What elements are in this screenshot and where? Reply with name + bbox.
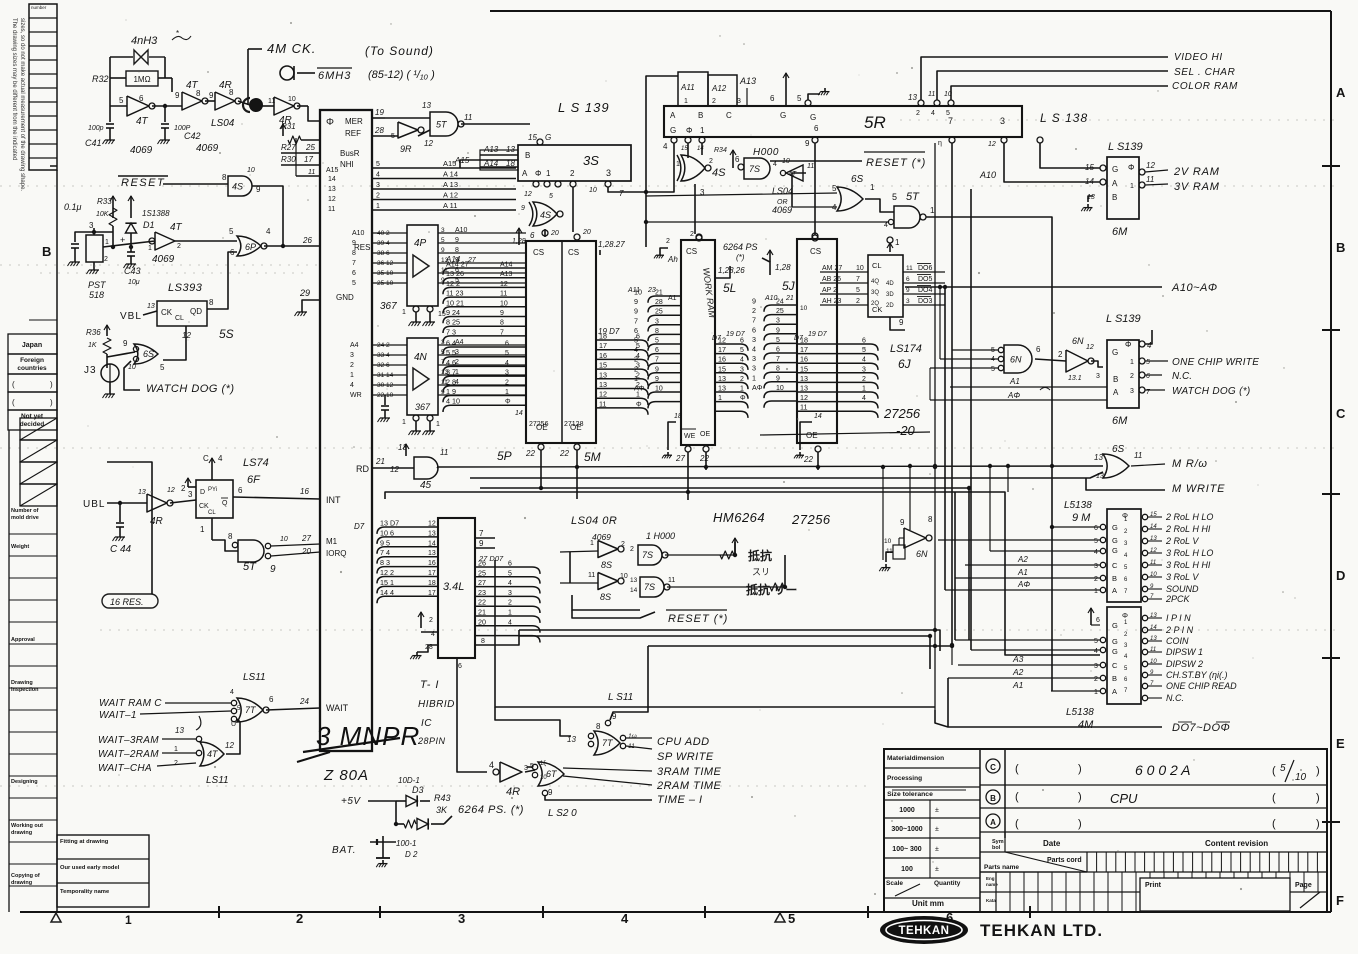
svg-text:38 6: 38 6 (377, 250, 390, 257)
svg-text:9: 9 (634, 307, 638, 316)
svg-text:Content revision: Content revision (1205, 839, 1268, 848)
svg-text:12 2: 12 2 (380, 568, 394, 577)
svg-text:11: 11 (588, 572, 595, 579)
gate 6S OR mid (837, 187, 863, 211)
svg-text:Φ: Φ (686, 126, 692, 135)
svg-text:6264 PS. (*): 6264 PS. (*) (458, 804, 524, 816)
svg-text:OE: OE (700, 431, 710, 438)
svg-text:7: 7 (752, 316, 756, 325)
svg-text:Z 80A: Z 80A (323, 767, 369, 784)
svg-text:ONE CHIP WRITE: ONE CHIP WRITE (1172, 357, 1259, 368)
svg-text:12: 12 (1146, 161, 1155, 170)
bus E horizontal long (495, 560, 935, 707)
svg-text:D: D (200, 489, 205, 496)
svg-text:1: 1 (684, 98, 688, 105)
svg-text:L S 139: L S 139 (558, 100, 610, 115)
wire reset star stub (572, 610, 655, 618)
node 16 RES oval (102, 594, 158, 608)
svg-text:6N: 6N (1010, 355, 1022, 365)
svg-text:8: 8 (196, 89, 201, 98)
svg-text:Date: Date (1043, 839, 1061, 848)
svg-text:18: 18 (599, 332, 607, 341)
wire LS393 out to 6P (207, 252, 237, 309)
svg-text:11: 11 (1146, 175, 1154, 184)
svg-text:6: 6 (508, 561, 512, 568)
svg-text:DO6: DO6 (918, 265, 933, 272)
svg-text:15: 15 (599, 361, 607, 370)
svg-text:9: 9 (441, 247, 445, 254)
svg-text:300~1000: 300~1000 (891, 826, 922, 833)
svg-text:3: 3 (776, 318, 780, 325)
svg-text:26: 26 (478, 559, 486, 568)
svg-text:11: 11 (807, 163, 814, 170)
svg-text:8: 8 (596, 722, 601, 731)
svg-text:1K: 1K (88, 342, 97, 349)
svg-text:G: G (780, 111, 786, 120)
svg-text:17: 17 (599, 341, 607, 350)
svg-text:1: 1 (870, 183, 875, 192)
svg-text:Not yet: Not yet (21, 413, 44, 420)
svg-text:LS74: LS74 (243, 457, 269, 469)
svg-text:G: G (1112, 621, 1118, 630)
svg-text:1,28: 1,28 (775, 263, 791, 272)
svg-text:AΦ: AΦ (752, 383, 763, 392)
svg-text:6: 6 (862, 338, 866, 345)
wire A10-A0 bus label (905, 286, 1162, 288)
wire M RW out (1131, 464, 1165, 466)
svg-text:TEHKAN: TEHKAN (899, 925, 950, 937)
svg-text:decided: decided (20, 421, 45, 428)
svg-text:C: C (1336, 406, 1346, 421)
svg-text:Parts name: Parts name (984, 864, 1019, 871)
vertical bus 945 (944, 287, 946, 590)
svg-text:22: 22 (478, 598, 486, 607)
svg-text:30 12: 30 12 (377, 382, 394, 389)
svg-text:B: B (990, 794, 996, 803)
svg-text:3: 3 (906, 298, 910, 305)
svg-text:13: 13 (800, 384, 808, 393)
gate 6T OR (538, 762, 564, 786)
svg-text:D1: D1 (143, 220, 155, 230)
svg-text:7: 7 (856, 276, 860, 283)
svg-text:4: 4 (634, 345, 638, 354)
svg-text:AB 26: AB 26 (822, 276, 841, 283)
svg-text:4: 4 (773, 161, 777, 168)
svg-text:1: 1 (895, 238, 900, 247)
svg-text:RES: RES (354, 243, 370, 252)
6T outputs to labels (563, 768, 652, 771)
svg-text:+: + (120, 235, 125, 245)
svg-text:1ξ: 1ξ (540, 761, 546, 767)
IC 5L body WORK RAM (681, 240, 715, 445)
svg-text:3: 3 (188, 490, 193, 499)
svg-text:3: 3 (376, 182, 380, 189)
svg-text:5: 5 (508, 570, 512, 577)
svg-text:Copying of: Copying of (11, 873, 40, 879)
margin bracket box 1 (8, 374, 57, 392)
svg-text:2: 2 (1130, 373, 1134, 380)
svg-text:CPU: CPU (1110, 791, 1138, 806)
svg-text:A: A (1112, 687, 1117, 696)
svg-text:2: 2 (429, 617, 433, 624)
svg-text:9 5: 9 5 (380, 538, 390, 547)
svg-text:2: 2 (621, 541, 625, 548)
wire sel char (937, 71, 1168, 100)
svg-text:2Q: 2Q (871, 301, 879, 307)
svg-text:4: 4 (350, 382, 354, 389)
wire UBL to 4R (107, 502, 147, 504)
svg-text:A13: A13 (500, 271, 513, 278)
svg-text:2: 2 (752, 306, 756, 315)
wire A10 from pin3 (1004, 143, 1100, 182)
svg-text:E: E (1336, 736, 1345, 751)
svg-text:11: 11 (1134, 451, 1142, 460)
svg-text:3.4L: 3.4L (443, 581, 464, 593)
gate 7S NAND b (640, 577, 664, 597)
svg-text:5: 5 (549, 193, 553, 200)
svg-text:L S2 0: L S2 0 (548, 808, 577, 819)
IC 3S body (518, 145, 631, 181)
svg-text:33 4: 33 4 (377, 352, 390, 359)
svg-text:2RAM TIME: 2RAM TIME (656, 780, 722, 792)
svg-text:6J: 6J (898, 357, 912, 371)
svg-text:100~ 300: 100~ 300 (892, 846, 921, 853)
svg-text:1,28: 1,28 (512, 238, 526, 245)
svg-text:8: 8 (229, 88, 234, 97)
svg-text:14: 14 (697, 146, 704, 152)
svg-text:10: 10 (288, 96, 296, 103)
svg-text:A2: A2 (1012, 667, 1024, 677)
svg-text:9: 9 (634, 297, 638, 306)
svg-text:AH 23: AH 23 (822, 298, 842, 305)
svg-text:8: 8 (655, 328, 659, 335)
wire ls11 in13 (495, 707, 571, 736)
svg-text:A: A (1112, 179, 1118, 188)
svg-text:6S: 6S (1112, 444, 1125, 455)
wire left of A11 (646, 76, 678, 192)
svg-text:8S: 8S (601, 560, 612, 570)
svg-text:C 44: C 44 (110, 544, 132, 555)
svg-text:Kata: Kata (986, 898, 996, 903)
svg-text:20: 20 (582, 229, 591, 236)
svg-text:8: 8 (352, 250, 356, 257)
svg-text:sizes, so do not make actual m: sizes, so do not make actual measurement… (19, 18, 25, 191)
IC 5R body (664, 106, 1022, 137)
svg-text:WATCH DOG (*): WATCH DOG (*) (146, 383, 235, 395)
svg-text:6F: 6F (247, 474, 261, 486)
svg-text:CS: CS (686, 247, 697, 256)
svg-text:36 12: 36 12 (377, 260, 394, 267)
svg-text:3: 3 (1094, 663, 1098, 670)
svg-text:28: 28 (374, 126, 384, 135)
wire node to inverter (103, 241, 155, 247)
svg-text:6 0 0 2 A: 6 0 0 2 A (1135, 762, 1191, 778)
svg-text:12: 12 (500, 281, 508, 288)
svg-text:±: ± (935, 807, 939, 814)
svg-text:DIPSW 1: DIPSW 1 (1166, 647, 1203, 657)
svg-text:1: 1 (105, 239, 109, 246)
svg-text:H000: H000 (753, 147, 779, 158)
svg-text:GND: GND (336, 293, 354, 302)
svg-text:Scale: Scale (886, 880, 903, 887)
svg-text:L S139: L S139 (1106, 313, 1141, 325)
svg-text:11: 11 (328, 206, 335, 213)
svg-text:18: 18 (428, 580, 436, 587)
svg-text:4: 4 (740, 357, 744, 364)
svg-text:3: 3 (1000, 116, 1005, 126)
svg-text:5: 5 (352, 280, 356, 287)
6J output rows (903, 271, 945, 273)
IC A11 box (678, 72, 708, 106)
svg-text:7: 7 (619, 189, 624, 198)
svg-text:2: 2 (1094, 576, 1098, 583)
svg-text:G: G (545, 133, 551, 142)
svg-text:): ) (1078, 791, 1082, 803)
svg-text:25: 25 (478, 568, 486, 577)
title revision grid upper (1086, 852, 1088, 872)
svg-text:(: ( (1272, 792, 1276, 804)
margin left border line (56, 170, 58, 912)
svg-text:1: 1 (200, 525, 205, 534)
wire 6P out to RES (264, 245, 320, 247)
junction dots buses (881, 465, 885, 469)
svg-text:2: 2 (508, 600, 512, 607)
svg-text:G: G (1112, 536, 1118, 545)
margin lower column rows (9, 533, 57, 535)
5L CS pin (696, 234, 702, 240)
svg-text:12: 12 (718, 336, 726, 345)
component PST518 (86, 235, 103, 262)
svg-text:(*): (*) (736, 253, 745, 262)
svg-text:A: A (1112, 586, 1117, 595)
6F top pin C4 (211, 458, 213, 480)
svg-text:7S: 7S (644, 582, 655, 592)
svg-text:C42: C42 (184, 131, 201, 141)
svg-text:DIPSW 2: DIPSW 2 (1166, 659, 1203, 669)
svg-text:WAIT–3RAM: WAIT–3RAM (98, 735, 159, 746)
svg-text:10: 10 (540, 775, 547, 781)
svg-text:9: 9 (500, 310, 504, 317)
svg-text:9 24: 9 24 (446, 308, 460, 317)
svg-text:5: 5 (655, 338, 659, 345)
svg-text:Print: Print (1145, 882, 1162, 889)
svg-text:6N: 6N (916, 549, 928, 559)
svg-text:24: 24 (299, 697, 309, 706)
svg-text:518: 518 (89, 290, 104, 300)
svg-text:LS11: LS11 (243, 672, 266, 683)
svg-text:R33: R33 (97, 197, 112, 206)
svg-text:8S: 8S (600, 592, 611, 602)
svg-text:21: 21 (478, 608, 486, 617)
svg-text:3S: 3S (583, 153, 599, 168)
junction blob (249, 98, 263, 112)
9M output pins (1142, 514, 1147, 519)
svg-text:27256: 27256 (529, 421, 549, 428)
svg-text:I P I N: I P I N (1166, 613, 1191, 623)
svg-text:1: 1 (1094, 689, 1098, 696)
svg-text:A 12: A 12 (443, 191, 458, 200)
svg-text:WAIT–2RAM: WAIT–2RAM (98, 749, 159, 760)
svg-text:4M CK.: 4M CK. (267, 41, 316, 56)
svg-text:J3: J3 (84, 365, 97, 376)
svg-text:N.C.: N.C. (1172, 371, 1192, 382)
svg-text:Weight: Weight (11, 544, 29, 550)
wire 8S inputs (560, 551, 598, 552)
svg-text:1MΩ: 1MΩ (133, 75, 150, 84)
svg-text:Our used early model: Our used early model (60, 865, 120, 871)
svg-text:11: 11 (308, 169, 315, 176)
svg-text:(: ( (1015, 763, 1019, 775)
svg-text:C: C (1112, 661, 1118, 670)
6J top pin (887, 237, 893, 243)
svg-text:CL: CL (208, 510, 216, 516)
svg-text:2: 2 (916, 110, 920, 117)
svg-text:5: 5 (856, 287, 860, 294)
svg-text:): ) (50, 380, 53, 389)
svg-text:9: 9 (752, 297, 756, 306)
svg-text:3 RoL H HI: 3 RoL H HI (1166, 560, 1211, 570)
svg-text:1: 1 (174, 746, 178, 753)
svg-text:13: 13 (718, 384, 726, 393)
svg-text:R32: R32 (92, 74, 109, 84)
margin tick left (50, 165, 57, 167)
svg-text:15 1: 15 1 (380, 578, 394, 587)
svg-text:DO3: DO3 (918, 298, 933, 305)
svg-text:2: 2 (570, 169, 575, 178)
svg-text:Japan: Japan (22, 342, 42, 349)
svg-text:LS393: LS393 (168, 282, 203, 294)
svg-text:U: U (231, 721, 236, 728)
svg-text:14: 14 (630, 587, 638, 594)
svg-text:5 5: 5 5 (446, 348, 456, 357)
svg-text:4069: 4069 (196, 143, 219, 154)
svg-text:3: 3 (505, 370, 509, 377)
wire 6S to 5T (865, 199, 894, 212)
IC 4M body (1107, 607, 1141, 704)
svg-text:4: 4 (508, 580, 512, 587)
CPU pin 28 REF (372, 135, 398, 137)
wire 6N out (929, 539, 1100, 541)
svg-text:G: G (810, 113, 816, 122)
svg-text:(: ( (1015, 791, 1019, 803)
svg-text:3: 3 (1096, 373, 1100, 380)
svg-text:CPU ADD: CPU ADD (657, 736, 710, 748)
wire wait out (266, 708, 320, 710)
svg-text:19 D7: 19 D7 (808, 331, 828, 338)
svg-text:2: 2 (666, 238, 670, 245)
svg-text:1: 1 (1130, 183, 1134, 190)
wire inverter to 6P (175, 240, 237, 242)
svg-text:5L: 5L (723, 281, 736, 295)
svg-text:2: 2 (505, 379, 509, 386)
svg-text:3: 3 (655, 318, 659, 325)
IC 9M body (1107, 509, 1141, 602)
svg-text:OE: OE (806, 431, 818, 440)
svg-text:5: 5 (1094, 638, 1098, 645)
wire 5T in2 (888, 219, 893, 224)
svg-text:6: 6 (752, 325, 756, 334)
svg-text:9: 9 (175, 91, 180, 100)
svg-text:22: 22 (699, 454, 709, 463)
svg-text:1: 1 (740, 386, 744, 393)
svg-text:A15: A15 (326, 167, 339, 174)
svg-text:HIBRID: HIBRID (418, 699, 455, 710)
svg-text:13: 13 (138, 489, 146, 496)
svg-text:3K: 3K (436, 805, 448, 815)
capacitor C44 (119, 503, 121, 522)
svg-text:Q: Q (222, 500, 228, 507)
svg-text:5T: 5T (243, 561, 257, 573)
svg-text:25: 25 (305, 143, 315, 152)
svg-text:A13: A13 (739, 76, 756, 86)
svg-text:100p: 100p (88, 125, 104, 132)
svg-text:19: 19 (375, 108, 384, 117)
wire 6F cl to 5T (212, 540, 238, 551)
buffer IC 4P body (407, 225, 438, 306)
svg-text:4069: 4069 (592, 532, 611, 542)
7T right top pin (605, 720, 610, 725)
4N gnd pins (413, 415, 419, 421)
wire 3S pin3 right (608, 187, 646, 192)
svg-text:16: 16 (599, 351, 607, 360)
svg-text:Quantity: Quantity (934, 880, 961, 887)
svg-text:CH.ST.BY (ηi(.): CH.ST.BY (ηi(.) (1166, 670, 1228, 680)
resistor pullup a (720, 551, 734, 559)
svg-text:): ) (1316, 765, 1320, 777)
4M input pins (1100, 637, 1105, 642)
svg-text:9: 9 (455, 237, 459, 244)
svg-text:A1: A1 (1017, 568, 1028, 577)
svg-text:10 6: 10 6 (380, 528, 394, 537)
svg-text:3V RAM: 3V RAM (1174, 181, 1220, 193)
svg-text:4: 4 (862, 395, 866, 402)
svg-text:A1: A1 (1009, 377, 1020, 386)
battery symbol (370, 841, 396, 843)
title parts cord cell (980, 871, 1087, 873)
svg-text:4: 4 (230, 689, 234, 696)
svg-text:13: 13 (908, 93, 917, 102)
wire 6T in wires (527, 766, 532, 768)
svg-text:13: 13 (328, 186, 336, 193)
svg-text:CL: CL (175, 315, 184, 322)
svg-text:AΦ: AΦ (634, 384, 645, 393)
svg-text:9R: 9R (400, 144, 412, 154)
svg-text:WAIT–CHA: WAIT–CHA (98, 763, 152, 774)
svg-text:25: 25 (655, 309, 663, 316)
svg-text:CS: CS (568, 248, 579, 257)
svg-text:5: 5 (391, 133, 395, 140)
CPU A15-A11 pins (372, 167, 516, 169)
svg-text:η: η (938, 140, 942, 147)
wire A15 to 3S region (460, 160, 518, 168)
svg-text:20: 20 (550, 230, 559, 237)
svg-text:±: ± (935, 866, 939, 873)
IC 5P 5M body (526, 241, 596, 443)
svg-text:7T: 7T (602, 738, 614, 748)
svg-text:1: 1 (1094, 588, 1098, 595)
wire mer (385, 117, 430, 119)
svg-text:11: 11 (928, 91, 935, 98)
svg-text:15: 15 (800, 364, 808, 373)
svg-text:5: 5 (892, 192, 897, 202)
svg-text:B: B (42, 244, 51, 259)
svg-text:11: 11 (800, 403, 807, 412)
svg-text:AΦ: AΦ (1007, 391, 1020, 400)
svg-text:5: 5 (1094, 538, 1098, 545)
vertical bus 948 (947, 678, 949, 727)
svg-text:Unit mm: Unit mm (912, 899, 944, 908)
svg-text:1: 1 (402, 309, 406, 316)
